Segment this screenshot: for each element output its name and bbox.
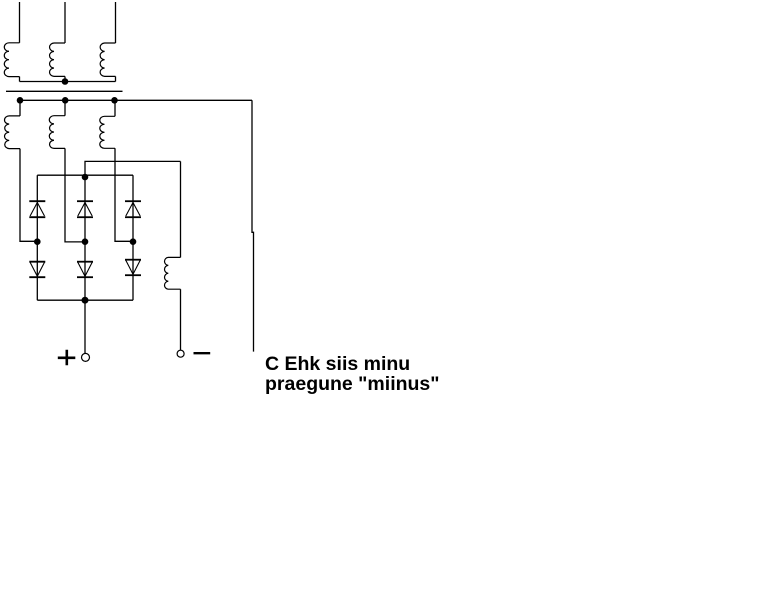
upper cathode rail wire — [37, 174, 133, 176]
transformer secondary winding S2 coil — [49, 116, 65, 149]
wire C: long run from bus right end down to label — [252, 100, 254, 351]
transformer primary winding P2 lead wire — [64, 2, 66, 43]
wire diode column 1 — [36, 175, 38, 300]
choke L1 coil — [165, 257, 181, 289]
node secondary phase A — [17, 97, 24, 104]
node secondary phase C — [111, 97, 118, 104]
wire diode column 3 — [132, 175, 134, 300]
transformer primary winding P3 lead wire — [115, 2, 117, 43]
junction dot upper rail / choke feed — [82, 174, 89, 181]
diode D2 (upper, column 2) — [77, 201, 93, 217]
transformer primary winding P1 lead wire — [19, 2, 21, 43]
label text — [265, 354, 440, 394]
transformer primary winding P1 coil — [4, 43, 19, 77]
wire phase C down — [115, 148, 133, 241]
+ symbol — [58, 350, 76, 366]
lower anode rail wire — [37, 299, 133, 301]
transformer core line — [6, 90, 123, 92]
node phase C / column 3 — [130, 238, 137, 245]
transformer secondary winding S3 coil — [100, 116, 115, 148]
wire P2 bottom to neutral — [64, 76, 66, 81]
transformer primary winding P3 coil — [100, 43, 115, 76]
choke L1 feed wire — [180, 161, 182, 257]
wire choke to - terminal — [180, 289, 182, 350]
diode D6 (lower, column 3) — [125, 260, 141, 276]
wire phase A down — [20, 149, 37, 242]
transformer secondary winding S2 top lead — [64, 100, 66, 115]
diode D4 (lower, column 1) — [29, 262, 45, 278]
junction dot primary neutral — [62, 78, 69, 85]
wire phase B down — [65, 148, 85, 242]
diode D1 (upper, column 1) — [29, 201, 45, 217]
transformer secondary winding S1 coil — [5, 116, 21, 149]
junction dot lower rail / + lead — [82, 297, 89, 304]
- symbol — [194, 352, 211, 354]
wire P3 bottom to neutral — [115, 76, 117, 81]
+ terminal circle — [82, 353, 90, 361]
transformer primary winding P2 coil — [50, 43, 65, 76]
diode D5 (lower, column 2) — [77, 262, 93, 278]
node phase A / column 1 — [34, 238, 41, 245]
transformer secondary winding S1 top lead — [19, 100, 21, 116]
primary neutral bus wire — [20, 81, 116, 83]
diode D3 (upper, column 3) — [125, 201, 141, 217]
secondary bus wire (top) — [20, 99, 252, 101]
wire diode column 2 (continues to + terminal) — [84, 176, 86, 353]
- terminal circle — [177, 350, 184, 357]
transformer secondary winding S3 top lead — [114, 100, 116, 116]
node secondary phase B — [62, 97, 69, 104]
wire P1 bottom to neutral — [19, 77, 21, 82]
wire upper rail to choke — [85, 161, 181, 176]
node phase B / column 2 — [82, 238, 89, 245]
